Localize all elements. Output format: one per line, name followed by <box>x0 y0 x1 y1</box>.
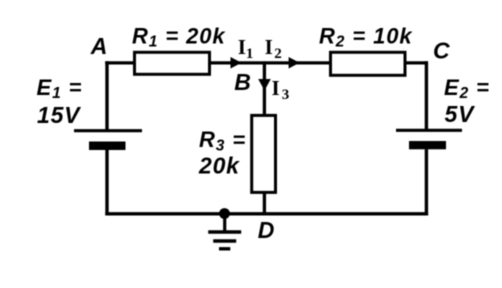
svg-text:R3 =: R3 = <box>199 127 246 154</box>
svg-text:5V: 5V <box>445 101 476 127</box>
battery E1 negative plate <box>89 142 126 151</box>
svg-text:20k: 20k <box>198 153 240 179</box>
svg-text:A: A <box>90 33 108 59</box>
wire node B to R2 <box>264 61 331 64</box>
svg-text:E2 =: E2 = <box>444 75 490 102</box>
wire R2 to node C <box>405 61 428 64</box>
svg-text:I3: I3 <box>272 76 290 103</box>
svg-text:C: C <box>433 38 450 64</box>
ground bar 2 <box>213 239 236 243</box>
wire bottom <box>105 212 428 215</box>
svg-text:I1: I1 <box>238 35 254 62</box>
wire R1 to node B <box>209 61 265 64</box>
svg-text:B: B <box>234 69 251 95</box>
battery E1 positive plate <box>74 129 142 132</box>
wire top-left from node A to R1 <box>105 61 136 64</box>
resistor R3 <box>252 115 276 192</box>
svg-text:I2: I2 <box>265 35 282 62</box>
ground bar 1 <box>208 230 241 234</box>
wire right vertical C to E2 <box>425 61 428 130</box>
svg-text:R1 = 20k: R1 = 20k <box>132 23 226 50</box>
svg-text:R2 = 10k: R2 = 10k <box>319 24 413 51</box>
ground bar 3 <box>219 247 230 250</box>
current arrow I3 <box>258 79 271 91</box>
resistor R2 <box>331 52 406 75</box>
wire left vertical A to E1 <box>105 61 108 130</box>
current arrow I1 <box>231 57 242 69</box>
wire R3 to bottom <box>263 191 266 214</box>
battery E2 positive plate <box>396 129 462 132</box>
svg-text:E1 =: E1 = <box>37 75 83 102</box>
junction dot node D <box>219 208 230 219</box>
wire E1 to bottom <box>105 150 108 215</box>
battery E2 negative plate <box>409 141 446 149</box>
wire node B down to R3 <box>263 63 266 116</box>
wire E2 to bottom <box>425 149 428 215</box>
svg-text:15V: 15V <box>37 102 81 128</box>
ground stub <box>223 214 226 233</box>
resistor R1 <box>135 52 210 74</box>
current arrow I2 <box>289 57 300 69</box>
svg-text:D: D <box>258 217 275 243</box>
